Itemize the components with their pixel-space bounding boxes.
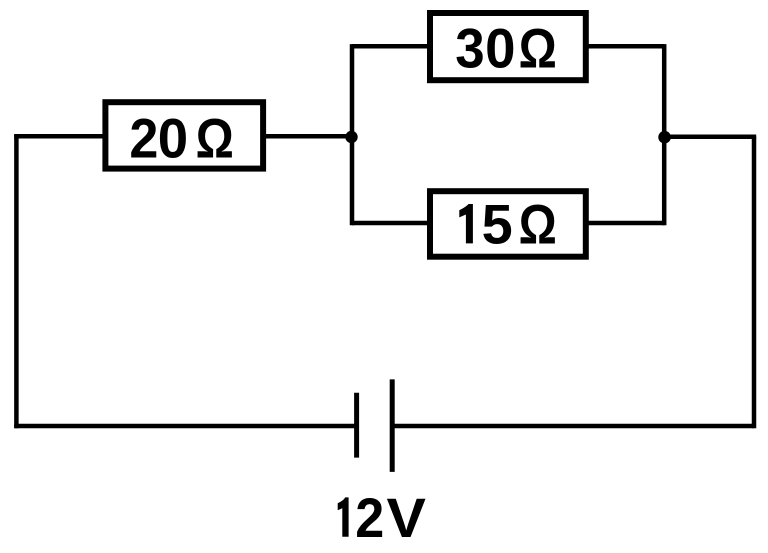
svg-text:V: V	[387, 486, 426, 548]
svg-text:Ω: Ω	[519, 192, 557, 255]
svg-text:5: 5	[482, 192, 513, 255]
svg-text:Ω: Ω	[196, 106, 234, 169]
svg-text:0: 0	[485, 16, 515, 79]
svg-text:2: 2	[129, 106, 158, 169]
svg-text:2: 2	[355, 486, 384, 548]
svg-text:0: 0	[158, 106, 188, 169]
svg-text:3: 3	[455, 16, 484, 79]
svg-text:Ω: Ω	[519, 16, 557, 79]
